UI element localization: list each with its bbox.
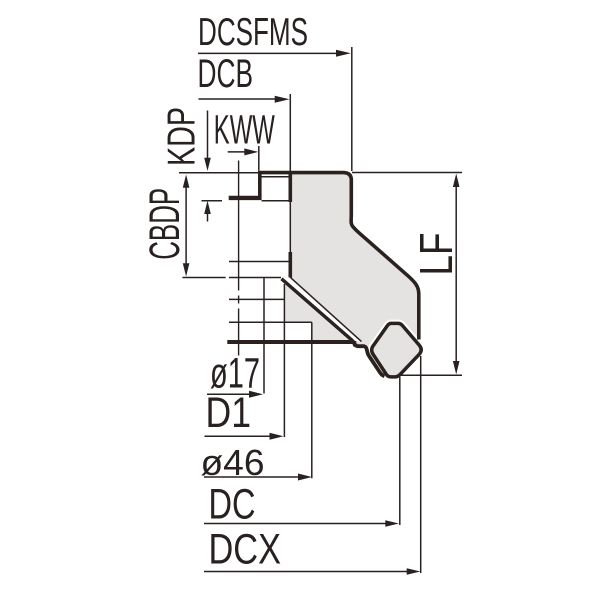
- counterbore floor line: [229, 277, 281, 279]
- KDP lower ref tick: [202, 200, 223, 202]
- LF top ext line: [352, 172, 462, 174]
- body outline thick: [258, 173, 419, 340]
- bore step line y322: [229, 321, 312, 323]
- bore wall D1 / ext line: [283, 284, 285, 437]
- svg-text:DCSFMS: DCSFMS: [198, 11, 308, 54]
- counterbore white block: [229, 201, 290, 278]
- bore step line y299: [229, 298, 284, 300]
- left edge thick lower: [288, 252, 292, 278]
- svg-text:DCB: DCB: [198, 52, 254, 96]
- bore wall phi17 / ext line: [263, 278, 265, 394]
- svg-text:DCX: DCX: [209, 526, 282, 574]
- top face left ext line: [179, 172, 258, 174]
- bore wall phi46 / ext line: [311, 322, 313, 478]
- DCX ext line: [420, 356, 422, 573]
- centerline: [238, 161, 240, 356]
- pocket upper thin diagonal: [290, 277, 361, 341]
- slot bottom thin line: [262, 200, 291, 202]
- insert C1: [372, 323, 422, 377]
- svg-text:KWW: KWW: [214, 107, 275, 153]
- left edge thick upper: [288, 174, 292, 202]
- bore steps white staircase: [229, 278, 312, 341]
- svg-text:KDP: KDP: [161, 107, 204, 166]
- top-left step vertical thick: [258, 172, 262, 197]
- flange bar thick: [229, 196, 262, 200]
- keyway slot white: [262, 177, 291, 201]
- pocket floor wrap line under insert: [357, 346, 385, 376]
- svg-text:DC: DC: [209, 481, 256, 529]
- cutter body gray silhouette: [258, 171, 419, 377]
- insert halo white clearance: [372, 323, 422, 377]
- DCSFMS ext line: [351, 47, 353, 171]
- DCB ext line: [289, 94, 291, 174]
- insert pocket white strip: [282, 277, 363, 342]
- svg-text:CBDP: CBDP: [141, 188, 189, 260]
- pocket jog thick: [354, 341, 357, 346]
- KWW ext line: [258, 146, 260, 171]
- svg-text:LF: LF: [410, 233, 462, 276]
- LF bottom ext line: [400, 374, 462, 376]
- svg-text:D1: D1: [206, 389, 252, 437]
- slot top thin line: [261, 176, 291, 178]
- bottom face thick: [227, 340, 354, 344]
- CBDP lower ref line: [182, 277, 225, 279]
- pocket lower edge thick diagonal: [282, 279, 356, 346]
- body left edge thin mid: [289, 202, 291, 252]
- DC ext line: [399, 377, 401, 525]
- counterbore mid line: [229, 261, 290, 263]
